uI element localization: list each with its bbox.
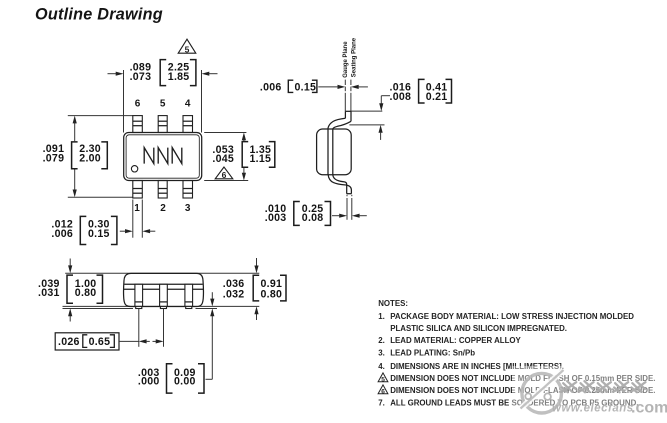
svg-text:2.: 2.: [378, 336, 385, 345]
svg-text:LEAD PLATING: Sn/Pb: LEAD PLATING: Sn/Pb: [390, 349, 475, 358]
svg-text:1.: 1.: [378, 312, 385, 321]
svg-text:NOTES:: NOTES:: [378, 299, 408, 308]
svg-text:.032: .032: [223, 288, 245, 300]
svg-text:.073: .073: [130, 71, 152, 83]
svg-text:0.80: 0.80: [261, 288, 283, 300]
svg-text:0.15: 0.15: [88, 228, 110, 240]
svg-text:6: 6: [135, 99, 141, 110]
svg-text:0.08: 0.08: [302, 212, 324, 224]
svg-text:2.00: 2.00: [79, 153, 101, 165]
svg-text:6: 6: [222, 170, 227, 180]
svg-text:.079: .079: [43, 153, 65, 165]
svg-text:Outline Drawing: Outline Drawing: [35, 5, 163, 23]
svg-text:0.00: 0.00: [174, 376, 196, 388]
svg-text:LEAD MATERIAL: COPPER ALLOY: LEAD MATERIAL: COPPER ALLOY: [390, 336, 521, 345]
svg-text:.026: .026: [58, 336, 80, 348]
svg-text:4.: 4.: [378, 362, 385, 371]
svg-text:.008: .008: [390, 91, 412, 103]
svg-text:4: 4: [185, 99, 191, 110]
svg-text:3.: 3.: [378, 349, 385, 358]
svg-text:6: 6: [381, 388, 385, 395]
svg-text:PLASTIC SILICA AND SILICON IMP: PLASTIC SILICA AND SILICON IMPREGNATED.: [390, 324, 567, 333]
svg-text:5: 5: [185, 44, 190, 54]
svg-text:0.21: 0.21: [426, 91, 448, 103]
svg-text:1: 1: [134, 203, 140, 214]
svg-text:.006: .006: [51, 228, 73, 240]
svg-text:1.15: 1.15: [250, 153, 272, 165]
svg-text:.006: .006: [260, 82, 282, 94]
svg-text:Gauge Plane: Gauge Plane: [343, 41, 349, 78]
svg-text:0.65: 0.65: [89, 336, 111, 348]
svg-text:0.80: 0.80: [75, 287, 97, 299]
svg-text:3: 3: [185, 203, 191, 214]
svg-text:.045: .045: [212, 153, 234, 165]
svg-text:Seating Plane: Seating Plane: [352, 37, 358, 77]
svg-text:2: 2: [160, 203, 166, 214]
svg-text:0.15: 0.15: [295, 82, 317, 94]
svg-text:.com: .com: [631, 400, 667, 417]
svg-text:5: 5: [381, 376, 385, 383]
svg-text:.031: .031: [38, 287, 60, 299]
svg-text:7.: 7.: [378, 398, 385, 407]
svg-text:5: 5: [160, 99, 166, 110]
svg-text:.003: .003: [265, 212, 287, 224]
svg-text:.000: .000: [138, 376, 160, 388]
svg-text:1.85: 1.85: [168, 71, 190, 83]
svg-text:PACKAGE BODY MATERIAL: LOW STR: PACKAGE BODY MATERIAL: LOW STRESS INJECT…: [390, 312, 634, 321]
svg-text:www.elecfans: www.elecfans: [552, 403, 634, 415]
